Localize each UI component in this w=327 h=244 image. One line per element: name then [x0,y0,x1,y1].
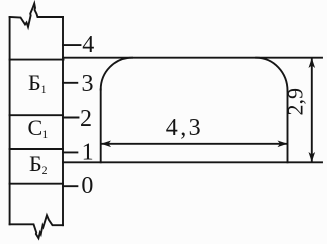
arrowhead 4,3 right [278,141,288,148]
dimension line 2,9 [311,59,313,162]
tick 3 [63,82,77,84]
tunnel roof line [63,57,322,59]
divider top of B1 inside column [10,59,64,61]
tunnel left corner arc [101,58,132,90]
tick 2 [63,117,79,119]
tunnel right corner arc [256,58,287,91]
svg-text:2: 2 [80,106,92,132]
svg-text:1: 1 [82,140,94,166]
tick 1 [63,151,77,153]
svg-text:0: 0 [81,173,93,199]
arrowhead 4,3 left [101,141,111,148]
column left edge (wire) [9,17,11,224]
tunnel right wall [287,91,289,163]
column right edge (wire) [62,17,64,225]
svg-text:4: 4 [82,32,94,58]
svg-text:3: 3 [82,71,94,97]
top break zigzag [10,4,63,27]
tunnel floor line [63,161,322,163]
tunnel left wall [100,90,102,163]
arrowhead 2,9 top [309,58,316,68]
tick 4 [63,44,81,46]
layer divider C1/B2 [10,148,63,150]
bottom break zigzag [10,215,63,238]
svg-text:4,3: 4,3 [166,115,203,141]
arrowhead 2,9 bottom [309,152,316,162]
layer divider bottom of B2 [10,183,63,185]
dimension line 4,3 [102,143,287,145]
svg-text:2,9: 2,9 [283,88,308,116]
layer divider B1/C1 [10,114,63,116]
tick 0 [63,185,77,187]
